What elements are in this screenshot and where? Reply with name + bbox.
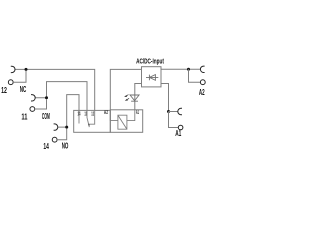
terminal 12 pin circle xyxy=(8,80,13,85)
contact stub pin 11 with moving arm xyxy=(87,110,89,127)
terminal A2 socket arc xyxy=(200,66,204,72)
input module U1 box xyxy=(142,67,162,87)
contact stub pin 14 xyxy=(78,110,80,123)
node: junction dot terminal A2 xyxy=(187,68,190,71)
wire: input box bottom-right to terminal A1 xyxy=(161,84,169,112)
wire: input box top-right to terminal A2 xyxy=(161,68,200,70)
wire: A2 junction to A2 circle xyxy=(189,69,201,82)
svg-text:12: 12 xyxy=(1,86,7,95)
contact arm arrowhead xyxy=(88,124,90,127)
relay K1 coil box xyxy=(110,110,142,133)
svg-text:AC/DC-Input: AC/DC-Input xyxy=(136,58,164,65)
wire: terminal 12 circle to junction xyxy=(13,71,26,82)
svg-text:11: 11 xyxy=(21,113,28,122)
terminal 11 pin circle xyxy=(30,107,35,112)
node: junction dot terminal A1 xyxy=(167,110,170,113)
wire: rail from terminal 12 to relay pin 12 xyxy=(15,69,95,110)
terminal A1 socket arc xyxy=(178,108,182,114)
svg-text:COM: COM xyxy=(42,112,50,121)
svg-text:A1: A1 xyxy=(136,110,139,116)
terminal A1 pin circle xyxy=(178,125,183,130)
terminal 12 socket arc xyxy=(11,66,15,72)
terminal A2 pin circle xyxy=(200,80,205,85)
terminal 14 socket arc xyxy=(54,124,58,130)
wire: pin A1 to coil xyxy=(127,110,135,121)
svg-text:14: 14 xyxy=(43,142,49,151)
LED D2 xyxy=(130,95,139,101)
node: junction dot terminal 14 xyxy=(65,126,68,129)
wire: terminal 11 circle to junction xyxy=(35,99,47,109)
contact pin 12 with bar xyxy=(89,110,95,124)
wire: terminal 14 circle to junction xyxy=(57,129,67,140)
wire: rail from terminal 11 to relay pin 11 xyxy=(35,82,87,111)
coil K1 xyxy=(118,115,127,129)
terminal 14 pin circle xyxy=(52,137,57,142)
wire: input box top-left to relay pin A2 xyxy=(110,69,141,109)
node: junction dot terminal 12 xyxy=(25,68,28,71)
wire: pin A2 to coil xyxy=(110,110,118,121)
svg-text:NC: NC xyxy=(20,85,27,94)
relay K1 contact box xyxy=(74,110,111,132)
svg-text:A2: A2 xyxy=(104,110,108,116)
wire: A1 junction to arc xyxy=(169,111,178,113)
svg-text:A1: A1 xyxy=(175,128,181,138)
LED arrow 2 xyxy=(126,98,129,100)
LED arrow 1 xyxy=(126,95,129,97)
node: junction dot terminal 11 xyxy=(45,96,48,99)
wire: rail from terminal 14 to relay pin 14 xyxy=(58,95,79,128)
diode D1 inside input box xyxy=(146,75,158,81)
wire: input box bottom-left to relay pin A1 through LED xyxy=(135,84,142,110)
svg-text:NO: NO xyxy=(62,141,69,150)
svg-text:12: 12 xyxy=(91,112,94,118)
terminal 11 socket arc xyxy=(31,95,35,101)
svg-text:A2: A2 xyxy=(199,87,205,97)
wire: A1 junction to A1 circle xyxy=(169,112,179,128)
